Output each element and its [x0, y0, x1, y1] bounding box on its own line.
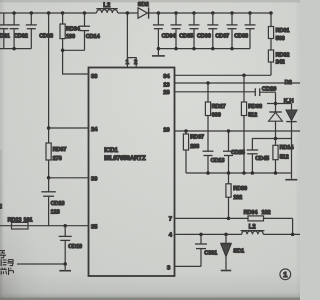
wire top supply rail	[0, 12, 271, 14]
wire annotation stub	[17, 262, 67, 266]
capacitor CD20	[255, 86, 276, 103]
pin 19 label	[163, 128, 170, 134]
junction dots input rail	[12, 11, 86, 50]
capacitor CD03	[26, 13, 53, 49]
capacitor CD45	[247, 137, 292, 173]
resistor RD03	[241, 75, 262, 173]
ground below D2 right	[285, 173, 297, 180]
capacitor CD08	[227, 13, 248, 49]
capacitor (unlabeled, right of CD08)	[245, 13, 256, 49]
wire pin 4 net	[175, 233, 301, 237]
diode SD2	[138, 2, 149, 19]
capacitor CD14	[79, 13, 101, 50]
wire pin 19 net	[175, 129, 301, 133]
pin 35 label	[91, 224, 98, 230]
capacitor CD13	[203, 151, 225, 173]
capacitor CD18	[41, 178, 64, 226]
resistor RD04	[229, 210, 293, 234]
resistor RD02	[268, 39, 289, 76]
resistor RD30	[226, 173, 247, 218]
node D2 top	[267, 80, 293, 105]
note circled 1	[280, 269, 291, 280]
capacitor CD04	[153, 13, 176, 49]
diode SD1	[220, 234, 245, 269]
wire bottom rail of output caps	[157, 47, 250, 51]
resistor RD14	[273, 139, 294, 174]
pin 30 label	[91, 177, 98, 183]
ground below CD04	[152, 49, 165, 56]
capacitor CD06	[189, 13, 211, 49]
wire pin 23 net	[175, 91, 256, 93]
junction dots output rail top	[157, 11, 273, 15]
resistor RD13	[0, 218, 89, 229]
pin 7 label	[169, 217, 173, 223]
annotation text (CJK)	[0, 251, 14, 275]
capacitor CD05	[171, 13, 193, 49]
pin 34 label	[163, 74, 170, 80]
pin label 1	[126, 60, 130, 66]
diode D2 right	[286, 104, 297, 174]
resistor RD34	[60, 13, 81, 50]
capacitor CD01	[0, 13, 10, 49]
wire pin 30 stub	[47, 176, 89, 180]
resistor RD37	[46, 128, 66, 178]
wire rail to pin 24	[47, 13, 89, 130]
inductor L2 (top)	[96, 2, 118, 13]
pin label 2	[134, 60, 138, 66]
wire mid bottom rail	[186, 171, 292, 175]
wire pins 1-2 riser	[126, 11, 137, 67]
pin 24 label	[91, 127, 98, 133]
pin 4 label	[169, 233, 173, 239]
wire pin 3 stub	[175, 265, 202, 267]
capacitor CD19	[59, 224, 82, 264]
capacitor CD07	[207, 13, 229, 49]
resistor RD07	[183, 131, 204, 173]
ground below CD19	[59, 264, 71, 271]
ground below SD1	[221, 270, 231, 272]
left edge mark	[0, 204, 2, 210]
inductor L2 (bottom)	[241, 223, 265, 234]
diode D2 left	[269, 104, 283, 139]
pin 3 label	[167, 265, 171, 271]
op-amp/controller ICD1 ISL97650ARTZ	[89, 68, 175, 277]
wire pin 34 net	[175, 74, 272, 78]
resistor RD01	[268, 13, 289, 42]
wire pin 13 net	[175, 82, 301, 84]
wire RD34-CD14 node to pin33	[61, 49, 89, 74]
pin 13 label	[163, 82, 170, 88]
pin 23 label	[163, 90, 170, 96]
capacitor C301	[195, 234, 217, 266]
capacitor CD25	[223, 131, 245, 173]
wire pin 7 stub	[175, 217, 231, 221]
pin 33 label	[91, 74, 98, 80]
wire bottom rail of input caps	[0, 48, 31, 50]
capacitor CD02	[9, 13, 28, 49]
resistor RD27	[205, 81, 225, 151]
